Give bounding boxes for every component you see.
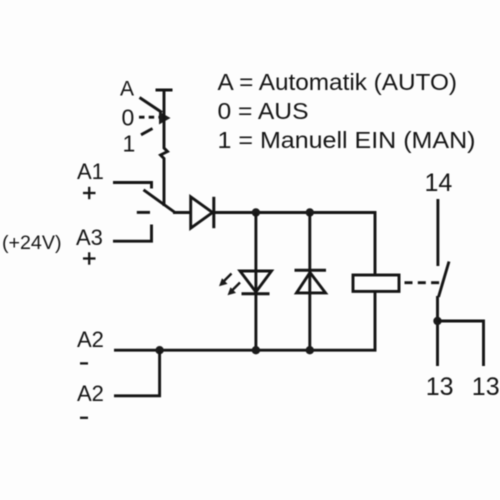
node LED branch bottom xyxy=(252,346,260,354)
wire freewheel diode branch upper xyxy=(308,213,311,351)
svg-text:1 = Manuell EIN (MAN): 1 = Manuell EIN (MAN) xyxy=(218,127,476,153)
svg-text:A: A xyxy=(120,78,134,101)
polarity - for A2 second xyxy=(80,417,88,419)
contact seat tick (A3) xyxy=(137,211,150,214)
svg-text:A2: A2 xyxy=(77,327,104,352)
selector position line 1 xyxy=(141,129,153,135)
svg-text:13: 13 xyxy=(472,373,500,401)
diode D1 xyxy=(191,197,214,228)
wire A3 xyxy=(113,225,152,242)
wire blade to diode xyxy=(173,211,191,214)
selector shaft T-bar xyxy=(156,89,173,92)
svg-text:A = Automatik (AUTO): A = Automatik (AUTO) xyxy=(218,69,458,95)
wire A2 first xyxy=(114,349,160,352)
switch blade S1 xyxy=(144,190,176,213)
top rail wire xyxy=(214,213,375,276)
wire terminal 13 xyxy=(436,296,439,366)
relay coil K1 xyxy=(353,275,399,291)
svg-text:A1: A1 xyxy=(77,159,104,184)
svg-text:A2: A2 xyxy=(77,381,104,406)
freewheeling diode V2 xyxy=(295,270,327,293)
LED V1 xyxy=(240,271,272,294)
svg-text:A3: A3 xyxy=(76,225,103,250)
svg-text:0 = AUS: 0 = AUS xyxy=(218,98,309,124)
relay contact blade xyxy=(439,262,450,298)
selector pointer arrow xyxy=(159,112,171,125)
selector position line 0 (dashed) xyxy=(139,116,160,119)
wire A1 xyxy=(113,183,152,189)
node A2 junction xyxy=(155,346,163,354)
wire second 13 branch xyxy=(438,321,484,366)
svg-text:(+24V): (+24V) xyxy=(2,233,62,254)
svg-text:1: 1 xyxy=(123,131,136,157)
polarity + for A1 xyxy=(83,187,96,199)
node LED branch top xyxy=(252,208,260,216)
wire A2 second xyxy=(114,350,160,396)
node 13 junction xyxy=(433,317,441,325)
node diode branch top xyxy=(306,208,314,216)
wire terminal 14 xyxy=(436,199,439,266)
polarity - for A2 first xyxy=(80,362,88,364)
svg-text:14: 14 xyxy=(425,169,453,197)
wire LED branch upper xyxy=(254,213,257,351)
svg-text:0: 0 xyxy=(122,105,135,131)
svg-text:13: 13 xyxy=(426,373,454,401)
node diode branch bottom xyxy=(306,346,314,354)
selector shaft with manual actuator kink xyxy=(161,90,168,206)
polarity + for A3 xyxy=(83,252,96,264)
LED light arrows xyxy=(219,274,240,296)
selector position line A xyxy=(140,98,163,113)
bottom rail wire xyxy=(160,291,375,350)
mechanical link to contact (dashed) xyxy=(405,281,444,284)
